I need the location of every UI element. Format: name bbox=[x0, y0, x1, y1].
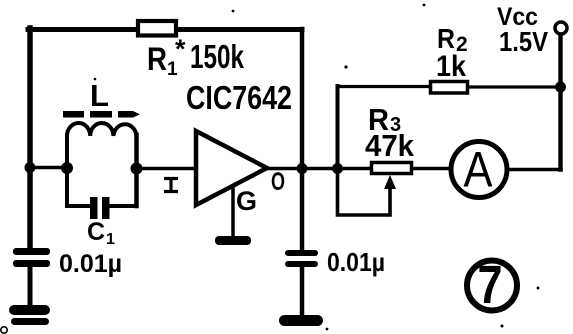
ammeter A bbox=[451, 142, 507, 198]
wire branch left rail to tank bbox=[30, 166, 67, 170]
svg-text:0.01µ: 0.01µ bbox=[327, 247, 385, 277]
resistor R1 bbox=[138, 21, 244, 80]
wire mid vertical capacitor to ground bbox=[300, 266, 305, 318]
svg-text:1: 1 bbox=[106, 231, 115, 248]
Vcc terminal bbox=[497, 3, 567, 57]
wire mid vertical from top rail to output node bbox=[300, 29, 305, 168]
svg-text:O: O bbox=[271, 168, 285, 196]
svg-text:CIC7642: CIC7642 bbox=[186, 79, 292, 116]
svg-text:G: G bbox=[236, 186, 257, 216]
ground (left rail) bbox=[9, 305, 50, 325]
svg-text:C: C bbox=[87, 218, 105, 246]
wire tank right vertical bbox=[134, 135, 139, 206]
node R2 branch junction bbox=[332, 163, 343, 174]
svg-text:0.01µ: 0.01µ bbox=[59, 250, 122, 278]
figure number 7 bbox=[467, 255, 517, 315]
node R2 right rail junction bbox=[555, 82, 566, 93]
wire ammeter to right rail bbox=[507, 168, 561, 171]
ground (mid rail) bbox=[279, 315, 323, 326]
svg-text:1.5V: 1.5V bbox=[499, 26, 548, 57]
svg-text:*: * bbox=[175, 34, 186, 64]
wire R3 to ammeter bbox=[412, 167, 451, 170]
node A (left rail junction) bbox=[25, 162, 36, 173]
IC label CIC7642 bbox=[186, 79, 292, 116]
ground (op-amp G pin) bbox=[215, 236, 251, 245]
wire left rail bbox=[27, 28, 33, 250]
wire R2 branch horizontal left bbox=[338, 85, 431, 88]
node input I junction bbox=[131, 163, 143, 175]
potentiometer R3 bbox=[365, 102, 415, 189]
svg-text:R: R bbox=[147, 41, 167, 77]
wire right rail up to Vcc bbox=[558, 34, 562, 170]
wire amplifier output to R3 bbox=[266, 167, 372, 170]
wire mid vertical output node down to capacitor bbox=[300, 168, 305, 250]
wire tank left vertical bbox=[65, 135, 69, 206]
svg-text:7: 7 bbox=[478, 255, 503, 315]
inductor L core (dashed bar) bbox=[63, 111, 140, 118]
capacitor left 0.01u bbox=[13, 248, 122, 278]
wire op-amp ground pin bbox=[231, 186, 235, 237]
inductor L bbox=[67, 78, 137, 136]
op-amp U1 CIC7642 bbox=[164, 131, 285, 216]
wire R3 wiper return bbox=[338, 168, 391, 215]
svg-text:A: A bbox=[464, 142, 494, 198]
wire top rail bbox=[28, 27, 302, 32]
wire R2 branch vertical bbox=[336, 86, 340, 168]
node output O junction bbox=[297, 163, 308, 174]
wire tank bottom left stub bbox=[67, 204, 91, 208]
wire R2 to right rail bbox=[468, 85, 561, 88]
svg-text:1k: 1k bbox=[436, 50, 466, 83]
svg-text:L: L bbox=[90, 78, 109, 113]
capacitor C1 bbox=[87, 197, 115, 248]
wire input node to amplifier bbox=[136, 167, 196, 170]
svg-text:47k: 47k bbox=[365, 128, 415, 163]
node tank left junction bbox=[61, 162, 73, 174]
wire tank bottom right stub bbox=[109, 204, 136, 208]
resistor R2 bbox=[431, 23, 468, 93]
wire left rail lower segment bbox=[28, 266, 33, 308]
capacitor mid 0.01u bbox=[285, 247, 385, 277]
svg-text:150k: 150k bbox=[190, 38, 244, 75]
